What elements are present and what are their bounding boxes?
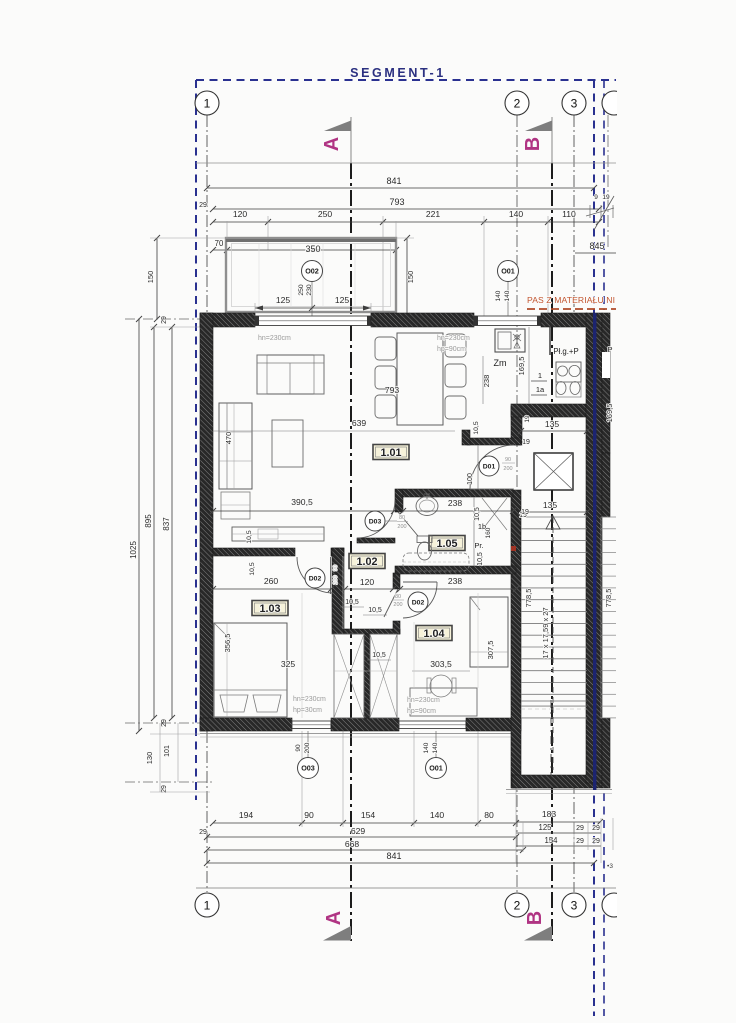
svg-text:325: 325 bbox=[281, 659, 296, 669]
section line B bbox=[551, 117, 553, 163]
svg-text:1: 1 bbox=[538, 371, 542, 380]
window label O01 top bbox=[507, 282, 509, 316]
kitchen sink bbox=[495, 329, 525, 352]
window label O03 bottom bbox=[307, 731, 309, 757]
dimension 70 350 row bbox=[213, 249, 396, 251]
terrace dims 125 125 bbox=[255, 307, 371, 309]
svg-text:29: 29 bbox=[161, 316, 168, 324]
svg-text:200: 200 bbox=[503, 466, 512, 472]
wall living-bedroom bbox=[213, 548, 295, 556]
svg-text:169,5: 169,5 bbox=[517, 357, 526, 376]
room label 1.04 bbox=[416, 626, 452, 641]
section marker A top triangle bbox=[324, 121, 351, 132]
svg-text:135: 135 bbox=[543, 500, 558, 510]
door D02 room 1.04 open leaf bbox=[403, 581, 437, 583]
svg-text:260: 260 bbox=[264, 576, 279, 586]
grid line 3 vertical bbox=[573, 115, 575, 318]
dimension chain 194 90 154 140 80 183 bottom bbox=[213, 822, 516, 824]
svg-text:10,5: 10,5 bbox=[368, 607, 382, 614]
svg-text:1025: 1025 bbox=[129, 541, 138, 559]
svg-text:1a: 1a bbox=[536, 385, 545, 394]
svg-text:2: 2 bbox=[514, 97, 521, 111]
svg-text:29: 29 bbox=[592, 825, 600, 832]
svg-text:•3: •3 bbox=[607, 863, 613, 870]
svg-text:250: 250 bbox=[318, 209, 333, 219]
svg-text:238: 238 bbox=[448, 576, 463, 586]
svg-text:O01: O01 bbox=[429, 764, 443, 773]
svg-text:200: 200 bbox=[393, 602, 402, 608]
svg-text:140: 140 bbox=[423, 742, 430, 753]
living dim 470 rotated bbox=[233, 403, 235, 489]
dimension 629 row bottom bbox=[207, 836, 516, 838]
svg-text:135: 135 bbox=[545, 419, 560, 429]
svg-text:793: 793 bbox=[389, 197, 404, 207]
dimension 845 top right bbox=[575, 252, 616, 254]
bottom wall sill band bbox=[200, 733, 521, 735]
bedroom dim 356.5 rotated bbox=[226, 623, 228, 717]
svg-text:19: 19 bbox=[524, 415, 531, 423]
svg-text:390,5: 390,5 bbox=[291, 497, 313, 507]
svg-text:1.02: 1.02 bbox=[356, 556, 377, 568]
wall hall left vertical bbox=[332, 548, 344, 634]
svg-text:hn=230cm: hn=230cm bbox=[293, 696, 326, 703]
left axis dash-dot y723 bbox=[125, 722, 200, 724]
svg-text:O02: O02 bbox=[305, 267, 319, 276]
kitchen stove bbox=[556, 362, 581, 382]
svg-text:845: 845 bbox=[589, 241, 604, 251]
svg-text:10,5: 10,5 bbox=[372, 652, 386, 659]
svg-text:140: 140 bbox=[504, 290, 511, 301]
kitchen wall horizontal bbox=[511, 404, 586, 417]
top wall right segment bbox=[541, 313, 587, 327]
shaft box with X bbox=[534, 453, 573, 490]
svg-text:10,5: 10,5 bbox=[473, 421, 480, 434]
closet door jamb stub lower bbox=[393, 621, 400, 634]
room 1.04 dim 238 bbox=[400, 588, 516, 590]
segment-2 stair treads bbox=[601, 516, 616, 518]
segment-2 wall strip lower bbox=[602, 718, 610, 788]
svg-text:9: 9 bbox=[594, 194, 598, 201]
svg-text:29: 29 bbox=[592, 838, 600, 845]
svg-text:194: 194 bbox=[239, 810, 254, 820]
svg-text:639: 639 bbox=[352, 418, 367, 428]
door label D03 bbox=[365, 511, 385, 531]
svg-text:90: 90 bbox=[333, 565, 339, 571]
window O02 in top wall bbox=[255, 316, 371, 326]
grid bubble 2 bottom bbox=[505, 893, 529, 917]
svg-text:D02: D02 bbox=[412, 600, 425, 607]
svg-text:D02: D02 bbox=[309, 576, 322, 583]
svg-text:19: 19 bbox=[521, 509, 529, 516]
left axis dash-dot y319 bbox=[125, 318, 200, 320]
living dim 639 bbox=[213, 430, 455, 432]
closet middle partition bbox=[364, 634, 370, 718]
svg-text:1.05: 1.05 bbox=[436, 538, 457, 550]
coffee table bbox=[272, 420, 303, 467]
dining chairs left bbox=[375, 337, 396, 360]
svg-text:10,5: 10,5 bbox=[345, 599, 359, 606]
chair 1.04 bbox=[430, 675, 452, 697]
door D03 arc bbox=[357, 500, 395, 538]
svg-text:29: 29 bbox=[199, 202, 207, 209]
svg-text:238: 238 bbox=[448, 498, 463, 508]
svg-text:70: 70 bbox=[215, 239, 224, 248]
svg-text:17 x 17,59 x 27: 17 x 17,59 x 27 bbox=[541, 607, 550, 658]
svg-text:O01: O01 bbox=[501, 267, 515, 276]
svg-text:100: 100 bbox=[467, 473, 474, 485]
grid bubble 4 top partial bbox=[602, 91, 626, 115]
door D02 room 1.04 arc bbox=[403, 582, 437, 618]
dimension 841 bottom bbox=[207, 862, 594, 864]
svg-text:221: 221 bbox=[426, 209, 441, 219]
bed double bbox=[214, 623, 287, 717]
closet door jamb stub upper bbox=[393, 573, 400, 589]
dimension 1025 left bbox=[138, 319, 140, 731]
dimension 841 top bbox=[207, 187, 594, 189]
door D02 room 1.04 swing leaf bbox=[384, 589, 398, 617]
svg-text:841: 841 bbox=[386, 851, 401, 861]
right room wall upper part bbox=[511, 406, 522, 445]
stair bottom wall bbox=[512, 775, 602, 788]
svg-text:140: 140 bbox=[495, 290, 502, 301]
svg-text:140: 140 bbox=[509, 209, 524, 219]
svg-text:160: 160 bbox=[485, 527, 492, 538]
dashed segment border left bbox=[195, 80, 197, 800]
dimension 837 left bbox=[171, 327, 173, 718]
svg-text:29: 29 bbox=[576, 825, 584, 832]
svg-text:D03: D03 bbox=[369, 519, 382, 526]
svg-text:154: 154 bbox=[544, 836, 558, 845]
svg-text:B: B bbox=[524, 911, 546, 925]
tv sideboard bbox=[232, 527, 324, 541]
svg-text:470: 470 bbox=[224, 432, 233, 445]
svg-text:793: 793 bbox=[385, 385, 400, 395]
svg-text:668: 668 bbox=[345, 839, 360, 849]
svg-text:200: 200 bbox=[397, 524, 406, 530]
svg-text:895: 895 bbox=[144, 514, 153, 528]
svg-text:P: P bbox=[607, 345, 612, 354]
top wall left segment bbox=[200, 313, 255, 327]
kitchen lower wall bbox=[467, 438, 521, 445]
door label D02 bedroom bbox=[305, 568, 325, 588]
grid line 1 vertical bbox=[206, 115, 208, 318]
dining table bbox=[397, 333, 443, 425]
svg-text:140: 140 bbox=[430, 810, 445, 820]
stair landing line bbox=[521, 700, 587, 702]
svg-text:3: 3 bbox=[571, 899, 578, 913]
svg-text:SEGMENT-1: SEGMENT-1 bbox=[350, 66, 446, 80]
bathroom bottom wall bbox=[395, 566, 516, 574]
bathroom left jamb wall bbox=[395, 489, 403, 512]
svg-text:Zm: Zm bbox=[494, 358, 507, 368]
svg-text:837: 837 bbox=[162, 517, 171, 531]
party wall hatch band bbox=[586, 313, 602, 783]
stair bottom dashed axis bbox=[550, 700, 552, 775]
room label 1.05 bbox=[429, 536, 465, 551]
svg-text:Pr.: Pr. bbox=[474, 541, 483, 550]
hall dim 120 bbox=[345, 588, 393, 590]
red dashed line bbox=[527, 308, 616, 310]
bedroom dim 260 bbox=[213, 588, 331, 590]
svg-text:80: 80 bbox=[484, 810, 494, 820]
dashed segment-2 border left bbox=[603, 80, 605, 310]
sofa top bbox=[257, 355, 324, 394]
bathtub bbox=[403, 553, 469, 571]
svg-text:hp=90cm: hp=90cm bbox=[437, 346, 466, 353]
stair dim 135 upper bbox=[521, 430, 587, 432]
kitchen small fixtures bbox=[556, 382, 566, 395]
svg-text:A: A bbox=[321, 137, 343, 151]
section line A bbox=[350, 117, 352, 163]
svg-text:29: 29 bbox=[199, 829, 207, 836]
red marker on wall bbox=[511, 546, 516, 551]
room label 1.03 bbox=[252, 601, 288, 616]
living dim 390.5 bbox=[213, 510, 394, 512]
terrace corner extensions bbox=[226, 221, 228, 238]
door D02 bedroom arc bbox=[297, 557, 333, 593]
svg-text:125: 125 bbox=[276, 295, 291, 305]
dimension 793 top bbox=[213, 208, 599, 210]
svg-text:250: 250 bbox=[298, 284, 305, 296]
svg-text:10,5: 10,5 bbox=[474, 507, 481, 521]
svg-text:hn=230cm: hn=230cm bbox=[437, 335, 470, 342]
stair bottom sill band bbox=[506, 789, 612, 791]
kitchen dim 169.5 rotated bbox=[528, 327, 530, 404]
svg-text:90: 90 bbox=[505, 457, 511, 463]
svg-text:150: 150 bbox=[406, 271, 415, 284]
svg-text:hn=230cm: hn=230cm bbox=[258, 335, 291, 342]
left outer wall bbox=[200, 313, 213, 731]
svg-text:3: 3 bbox=[571, 97, 578, 111]
closet reference line bbox=[334, 670, 397, 672]
svg-text:629: 629 bbox=[351, 826, 366, 836]
svg-text:120: 120 bbox=[360, 577, 375, 587]
grid bubble 3 top bbox=[562, 91, 586, 115]
wall bedroom door jamb bbox=[331, 548, 344, 556]
bottom wall left segment bbox=[200, 718, 292, 731]
segment-2 wall strip upper bbox=[602, 313, 610, 453]
dimension 895 left bbox=[153, 327, 155, 718]
bottom wall middle segment bbox=[331, 718, 399, 731]
svg-text:125: 125 bbox=[538, 823, 552, 832]
svg-text:1.04: 1.04 bbox=[423, 628, 444, 640]
door D03 leaf bbox=[398, 512, 418, 536]
grid line 2 vertical bbox=[516, 115, 518, 892]
segment-2 wall strip mid bbox=[602, 453, 610, 517]
svg-text:29: 29 bbox=[576, 838, 584, 845]
svg-text:90: 90 bbox=[295, 744, 302, 752]
svg-text:O03: O03 bbox=[301, 764, 315, 773]
dimension 150 left bbox=[156, 238, 158, 319]
bathroom top wall bbox=[403, 489, 513, 497]
svg-text:10,5: 10,5 bbox=[246, 530, 253, 543]
svg-text:350: 350 bbox=[305, 244, 320, 254]
grid bubble 4 bottom partial bbox=[602, 893, 626, 917]
stairwell left wall bbox=[511, 490, 521, 788]
section marker A bottom triangle bbox=[323, 926, 351, 941]
section marker B bottom triangle bbox=[524, 926, 552, 941]
svg-text:2: 2 bbox=[514, 899, 521, 913]
svg-text:356,5: 356,5 bbox=[223, 634, 232, 653]
dashed segment border top bbox=[196, 79, 616, 81]
svg-text:200: 200 bbox=[304, 742, 311, 753]
stair direction arrow bbox=[546, 516, 560, 529]
svg-text:125: 125 bbox=[335, 295, 350, 305]
svg-text:hn=230cm: hn=230cm bbox=[407, 697, 440, 704]
svg-text:80: 80 bbox=[395, 594, 401, 600]
svg-text:hp=90cm: hp=90cm bbox=[407, 708, 436, 715]
hall nook wall bbox=[357, 538, 395, 543]
svg-text:238: 238 bbox=[482, 375, 491, 388]
terrace outline bbox=[226, 238, 396, 312]
room label 1.01 bbox=[373, 445, 409, 460]
svg-text:Pł.g.+P: Pł.g.+P bbox=[553, 347, 578, 356]
window O03 in bottom wall bbox=[292, 721, 331, 729]
section marker B top triangle bbox=[525, 121, 552, 132]
svg-text:778,5: 778,5 bbox=[604, 589, 613, 608]
extension lines top chain bbox=[267, 216, 269, 250]
leader diagonal top right bbox=[594, 196, 614, 230]
svg-text:154: 154 bbox=[361, 810, 376, 820]
closet right box bbox=[370, 634, 397, 718]
svg-text:10,5: 10,5 bbox=[477, 552, 484, 566]
svg-text:hp=30cm: hp=30cm bbox=[293, 707, 322, 714]
party wall navy line bbox=[593, 313, 596, 790]
dimension 100 corridor bbox=[477, 445, 479, 489]
grid bubble 2 top bbox=[505, 91, 529, 115]
window label O01 bottom bbox=[435, 731, 437, 757]
left small unit bbox=[221, 492, 250, 519]
svg-text:841: 841 bbox=[386, 176, 401, 186]
washbasin bbox=[416, 497, 438, 516]
top wall middle segment bbox=[371, 313, 474, 327]
stair treads bbox=[521, 516, 587, 518]
bathroom dim 238 bbox=[403, 510, 513, 512]
door label D01 bbox=[479, 456, 499, 476]
bottom wall right segment bbox=[466, 718, 521, 731]
closet top wall bbox=[344, 629, 400, 634]
door D03 size note bbox=[385, 520, 397, 522]
svg-text:230: 230 bbox=[306, 284, 313, 296]
entry door D01 arc bbox=[470, 445, 514, 489]
svg-text:1: 1 bbox=[204, 97, 211, 111]
toilet bbox=[417, 536, 432, 543]
svg-text:120: 120 bbox=[233, 209, 248, 219]
dimension 154 29 29 row bbox=[516, 845, 601, 847]
grid bubble 3 bottom bbox=[562, 893, 586, 917]
svg-text:D01: D01 bbox=[483, 464, 496, 471]
svg-text:169,5: 169,5 bbox=[605, 404, 614, 423]
left wardrobe sofa bbox=[219, 403, 252, 489]
dining chairs right bbox=[445, 334, 466, 357]
stair walk line dashed bbox=[552, 517, 554, 770]
page right margin clip bbox=[617, 0, 736, 1023]
svg-text:A: A bbox=[323, 911, 345, 925]
grid line 4 vertical partial bbox=[607, 115, 609, 250]
bottom extension verticals bbox=[301, 731, 303, 827]
shower corner bbox=[482, 498, 507, 530]
svg-text:1.01: 1.01 bbox=[380, 447, 401, 459]
svg-text:101: 101 bbox=[164, 745, 171, 757]
stair dim 135 lower bbox=[521, 511, 587, 513]
kitchen wall end stub bbox=[462, 430, 470, 445]
svg-text:1.03: 1.03 bbox=[259, 603, 280, 615]
bed single 1.04 bbox=[470, 597, 508, 667]
window O01 in bottom wall bbox=[399, 721, 466, 729]
svg-text:80: 80 bbox=[399, 515, 405, 521]
svg-text:19: 19 bbox=[522, 439, 530, 446]
svg-text:90: 90 bbox=[304, 810, 314, 820]
terrace tile lines bbox=[258, 243, 260, 307]
svg-text:200: 200 bbox=[333, 575, 339, 584]
svg-text:150: 150 bbox=[146, 271, 155, 284]
dimension 150 right of terrace bbox=[406, 238, 408, 316]
svg-text:130: 130 bbox=[145, 752, 154, 765]
construction extension lines through rooms bbox=[301, 593, 303, 718]
kitchen sink side line bbox=[549, 327, 551, 355]
svg-text:303,5: 303,5 bbox=[430, 659, 452, 669]
svg-text:1: 1 bbox=[204, 899, 211, 913]
svg-text:140: 140 bbox=[432, 742, 439, 753]
grid bubble 1 bottom bbox=[195, 893, 219, 917]
svg-text:B: B bbox=[522, 137, 544, 151]
dimension 668 row bottom bbox=[207, 849, 523, 851]
closet left box bbox=[334, 634, 364, 718]
dashed segment border right bbox=[593, 80, 595, 1016]
room label 1.02 bbox=[349, 554, 385, 569]
svg-text:110: 110 bbox=[562, 209, 576, 219]
svg-text:10,5: 10,5 bbox=[249, 562, 256, 575]
svg-text:778,5: 778,5 bbox=[524, 589, 533, 608]
svg-text:19: 19 bbox=[602, 194, 610, 201]
window O01 in top wall bbox=[474, 316, 541, 326]
dimension chain 120 250 221 140 110 bbox=[213, 221, 599, 223]
svg-text:183: 183 bbox=[542, 809, 557, 819]
grid bubble 1 top bbox=[195, 91, 219, 115]
desk 1.04 bbox=[410, 688, 477, 716]
dimension 125 29 29 row bbox=[516, 832, 601, 834]
left axis dash-dot y782 bbox=[125, 781, 213, 783]
left extension verticals bottom bbox=[159, 723, 161, 792]
window label O02 terrace bbox=[311, 282, 313, 316]
kitchen dim 238 rotated bbox=[482, 356, 484, 404]
horizontal reference line y163 bbox=[196, 162, 616, 164]
svg-text:PAS Z MATERIAŁU NI: PAS Z MATERIAŁU NI bbox=[527, 295, 615, 305]
door D02 bedroom leaf bbox=[330, 557, 332, 594]
bottom reference line y888 bbox=[196, 887, 616, 889]
door label D02 room 1.04 bbox=[408, 592, 428, 612]
svg-text:307,5: 307,5 bbox=[486, 641, 495, 660]
